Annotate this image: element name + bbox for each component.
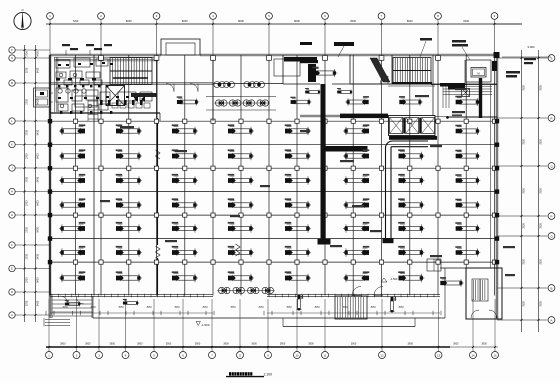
svg-text:3550: 3550 xyxy=(118,306,124,309)
svg-text:3900: 3900 xyxy=(223,343,229,346)
svg-text:5400: 5400 xyxy=(37,99,40,105)
svg-text:5400: 5400 xyxy=(37,200,40,206)
svg-text:3550: 3550 xyxy=(286,306,292,309)
svg-text:H: H xyxy=(11,190,13,194)
svg-text:2700: 2700 xyxy=(26,51,29,57)
svg-text:3900: 3900 xyxy=(195,343,201,346)
svg-text:7500: 7500 xyxy=(540,139,543,145)
svg-text:11: 11 xyxy=(324,353,327,357)
svg-text:P: P xyxy=(11,48,13,52)
svg-text:7500: 7500 xyxy=(523,301,526,307)
svg-text:8100: 8100 xyxy=(463,19,469,23)
svg-text:3900: 3900 xyxy=(453,343,459,346)
svg-text:8000: 8000 xyxy=(238,19,244,23)
svg-text:D: D xyxy=(11,290,13,294)
svg-text:5400: 5400 xyxy=(37,300,40,306)
svg-text:2700: 2700 xyxy=(26,176,29,182)
svg-text:8000: 8000 xyxy=(407,19,413,23)
svg-text:15: 15 xyxy=(493,353,497,357)
svg-text:7500: 7500 xyxy=(540,259,543,265)
svg-text:14: 14 xyxy=(471,353,475,357)
svg-text:3550: 3550 xyxy=(258,306,264,309)
svg-text:N: N xyxy=(11,56,13,60)
svg-text:5400: 5400 xyxy=(37,253,40,259)
svg-text:M: M xyxy=(11,81,13,85)
svg-text:8000: 8000 xyxy=(294,19,300,23)
svg-text:5400: 5400 xyxy=(37,51,40,57)
svg-text:3900: 3900 xyxy=(251,343,257,346)
svg-text:5400: 5400 xyxy=(37,153,40,159)
svg-text:3550: 3550 xyxy=(398,306,404,309)
svg-text:A: A xyxy=(550,318,552,322)
svg-text:12: 12 xyxy=(380,353,384,357)
svg-text:8000: 8000 xyxy=(182,19,188,23)
svg-text:2700: 2700 xyxy=(26,99,29,105)
svg-text:3900: 3900 xyxy=(351,343,357,346)
svg-text:7500: 7500 xyxy=(523,188,526,194)
svg-text:P: P xyxy=(550,214,552,218)
svg-text:3550: 3550 xyxy=(314,306,320,309)
svg-text:3900: 3900 xyxy=(481,343,487,346)
svg-text:7500: 7500 xyxy=(523,259,526,265)
svg-text:2700: 2700 xyxy=(26,153,29,159)
svg-text:3550: 3550 xyxy=(62,306,68,309)
svg-text:N: N xyxy=(22,8,24,12)
svg-text:7500: 7500 xyxy=(540,301,543,307)
svg-text:-1.500: -1.500 xyxy=(390,277,398,281)
svg-text:5400: 5400 xyxy=(37,227,40,233)
svg-text:5400: 5400 xyxy=(37,129,40,135)
svg-text:2700: 2700 xyxy=(26,200,29,206)
svg-text:3550: 3550 xyxy=(202,306,208,309)
svg-text:7500: 7500 xyxy=(523,223,526,229)
svg-text:2700: 2700 xyxy=(26,300,29,306)
svg-text:5400: 5400 xyxy=(37,176,40,182)
svg-text:5400: 5400 xyxy=(37,277,40,283)
svg-text:2700: 2700 xyxy=(26,129,29,135)
svg-text:3550: 3550 xyxy=(230,306,236,309)
svg-text:3550: 3550 xyxy=(146,306,152,309)
svg-text:10: 10 xyxy=(295,353,299,357)
svg-text:3900: 3900 xyxy=(60,343,66,346)
svg-text:2700: 2700 xyxy=(26,227,29,233)
svg-text:5400: 5400 xyxy=(37,67,40,73)
svg-text:K: K xyxy=(11,143,13,147)
svg-text:13: 13 xyxy=(437,353,441,357)
svg-text:1:100: 1:100 xyxy=(264,373,273,377)
svg-text:G: G xyxy=(11,213,13,217)
svg-text:2700: 2700 xyxy=(26,67,29,73)
svg-text:-1.500: -1.500 xyxy=(201,323,210,327)
svg-text:3900: 3900 xyxy=(408,343,414,346)
svg-text:3900: 3900 xyxy=(280,343,286,346)
svg-text:7500: 7500 xyxy=(523,139,526,145)
svg-text:8000: 8000 xyxy=(126,19,132,23)
svg-text:3550: 3550 xyxy=(174,306,180,309)
svg-text:E: E xyxy=(11,267,13,271)
svg-text:3550: 3550 xyxy=(90,306,96,309)
svg-text:8000: 8000 xyxy=(350,19,356,23)
svg-text:7500: 7500 xyxy=(540,223,543,229)
svg-text:3900: 3900 xyxy=(166,343,172,346)
svg-text:3900: 3900 xyxy=(110,343,116,346)
svg-text:B: B xyxy=(550,286,552,290)
svg-text:2700: 2700 xyxy=(26,253,29,259)
svg-text:3550: 3550 xyxy=(342,306,348,309)
svg-text:2700: 2700 xyxy=(26,277,29,283)
svg-text:3550: 3550 xyxy=(370,306,376,309)
svg-text:7500: 7500 xyxy=(540,188,543,194)
svg-text:A: A xyxy=(11,313,13,317)
svg-text:7500: 7500 xyxy=(540,85,543,91)
svg-text:3900: 3900 xyxy=(308,343,314,346)
svg-text:7500: 7500 xyxy=(523,85,526,91)
svg-text:3900: 3900 xyxy=(85,343,91,346)
svg-text:3900: 3900 xyxy=(137,343,143,346)
svg-text:9.000: 9.000 xyxy=(528,45,535,49)
svg-text:7200: 7200 xyxy=(73,19,79,23)
